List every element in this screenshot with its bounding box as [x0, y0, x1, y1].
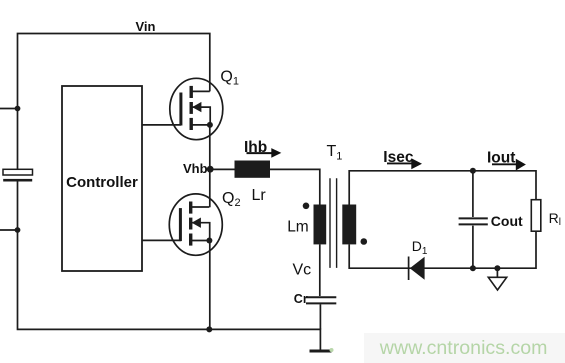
- svg-text:Cout: Cout: [491, 213, 523, 229]
- svg-text:Cr: Cr: [294, 292, 308, 306]
- svg-text:www.cntronics.com: www.cntronics.com: [379, 337, 548, 359]
- svg-text:Vc: Vc: [293, 262, 312, 279]
- svg-text:Lm: Lm: [287, 218, 309, 235]
- svg-text:Vin: Vin: [136, 19, 156, 34]
- svg-text:Lr: Lr: [252, 187, 267, 204]
- svg-text:Vhb: Vhb: [183, 161, 208, 176]
- svg-text:Controller: Controller: [66, 174, 138, 191]
